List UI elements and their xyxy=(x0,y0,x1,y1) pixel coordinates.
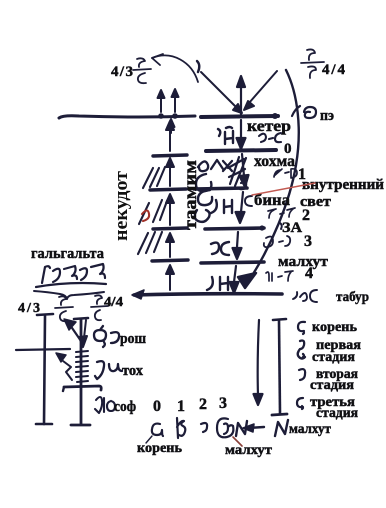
svg-text:пэ: пэ xyxy=(320,108,334,124)
svg-text:стадия: стадия xyxy=(310,378,354,393)
svg-text:внутренний: внутренний xyxy=(302,177,384,193)
N malhut bottom right xyxy=(275,420,288,436)
svg-text:4/4: 4/4 xyxy=(322,62,346,78)
svg-text:0: 0 xyxy=(153,398,161,415)
up arrow below left line xyxy=(168,119,175,133)
svg-text:малхут: малхут xyxy=(289,422,331,437)
toh glyphs + label xyxy=(95,361,122,379)
b-g handwriting under keter xyxy=(259,133,281,142)
zigzag arrow toward cross xyxy=(63,361,72,380)
g-d 2 handwriting xyxy=(268,208,295,218)
svg-text:табур: табур xyxy=(336,290,369,305)
squiggles crossing line above bina xyxy=(228,157,246,189)
N glyph with strike xyxy=(236,421,247,436)
slash marks group 3 xyxy=(138,232,162,254)
svg-text:тох: тох xyxy=(122,363,143,379)
right diagonal into keter xyxy=(244,71,277,110)
svg-text:малхут: малхут xyxy=(278,254,329,270)
red pointer line xyxy=(252,183,315,195)
curly brace xyxy=(34,291,104,299)
letter row: e glyph xyxy=(152,424,163,436)
svg-text:1: 1 xyxy=(177,398,185,415)
yud mark xyxy=(197,61,199,72)
curved arrow to upper-left xyxy=(152,55,198,82)
tabur glyphs xyxy=(293,290,317,302)
svg-text:1: 1 xyxy=(298,166,306,183)
d-l 3 handwriting xyxy=(264,236,290,247)
svg-text:3: 3 xyxy=(304,233,312,250)
svg-text:корень: корень xyxy=(137,441,183,456)
hohma bar xyxy=(206,150,276,151)
stage glyphs and labels xyxy=(298,322,305,334)
bottom bar of figure (sof line) xyxy=(64,386,101,390)
pe glyph xyxy=(292,106,316,118)
JN glyph bottom left of malhut bar xyxy=(207,277,228,290)
twin up arrows on left line xyxy=(158,90,165,112)
svg-text:таамим: таамим xyxy=(180,160,200,230)
top-right handwritten fraction + 4/4 xyxy=(301,49,324,78)
svg-text:4: 4 xyxy=(305,265,313,282)
svg-text:гальгальта: гальгальта xyxy=(31,246,104,262)
long down arrow right section xyxy=(254,320,263,405)
down arrow keter->hohma xyxy=(237,120,246,149)
down arrow beside it xyxy=(79,320,87,347)
down arrow malhut->bottom line xyxy=(230,266,239,293)
down arrow hohma->bina xyxy=(240,154,249,187)
cross horizontal line xyxy=(16,349,70,350)
yud-H glyph left of line xyxy=(218,127,233,144)
down arrow ZA->malhut xyxy=(233,232,242,259)
handwriting left of hohma bar xyxy=(198,160,232,171)
koren label with pointer xyxy=(146,436,152,443)
ZA bar xyxy=(205,228,264,229)
taamim tick bars xyxy=(153,155,187,156)
left diagonal into keter xyxy=(201,72,242,113)
taamim up arrows chain xyxy=(166,121,174,151)
epsilon glyph before bina xyxy=(245,196,252,206)
right vertical line of galgalta figure xyxy=(80,319,83,424)
svg-text:малхут: малхут xyxy=(225,443,272,458)
svg-text:стадия: стадия xyxy=(316,406,358,421)
down arrow bina->ZA xyxy=(236,192,245,223)
apostrophe before ZA xyxy=(280,223,282,229)
4/4 fraction xyxy=(91,295,108,320)
galgalta hebrew cursive xyxy=(42,264,105,283)
svg-text:корень: корень xyxy=(312,320,358,335)
I-beam line xyxy=(279,321,280,413)
svg-text:бина: бина xyxy=(254,192,290,209)
letter row: k glyph xyxy=(177,418,185,438)
coil on right line xyxy=(76,351,88,382)
svg-text:рош: рош xyxy=(120,331,146,347)
slash marks group 1 xyxy=(143,167,165,188)
up-left arrow at top of right line xyxy=(70,325,81,341)
svg-text:4/4: 4/4 xyxy=(104,295,123,310)
bina bar xyxy=(194,188,247,189)
tall cursive column left of bars xyxy=(195,174,212,222)
svg-text:4/3: 4/3 xyxy=(111,64,133,80)
1 and alef-bet handwriting xyxy=(274,169,297,178)
letter row: resh glyph xyxy=(201,423,207,432)
circled glyph xyxy=(217,418,233,437)
keter bar xyxy=(201,116,278,117)
svg-text:стадия: стадия xyxy=(312,350,355,365)
rosh glyphs + label xyxy=(94,326,119,347)
malhut bar xyxy=(201,262,264,263)
svg-text:ЗА: ЗА xyxy=(282,220,302,236)
underline sweep xyxy=(36,283,106,287)
big arc down the right side xyxy=(248,70,299,282)
sof glyphs + label xyxy=(95,397,115,413)
resh-kaf glyph left of ZA-malhut xyxy=(211,242,229,255)
left horizontal line xyxy=(59,116,195,118)
bottom long line with left arrowhead xyxy=(134,294,282,295)
up arrow above keter xyxy=(237,76,245,114)
svg-text:хохма: хохма xyxy=(254,153,295,170)
svg-text:3: 3 xyxy=(219,395,227,412)
malhut label with pointer xyxy=(233,437,242,446)
JN glyph left of bina-ZA xyxy=(211,200,232,213)
svg-text:кетер: кетер xyxy=(247,118,291,135)
strike arrow to left xyxy=(248,427,264,428)
slash marks group 2 with red pe xyxy=(139,200,167,224)
svg-text:соф: соф xyxy=(114,399,136,415)
handwritten fraction beside 4/3 xyxy=(133,58,151,83)
svg-text:2: 2 xyxy=(199,396,207,413)
svg-text:2: 2 xyxy=(302,207,310,224)
svg-text:некудот: некудот xyxy=(111,170,132,241)
left vertical line of galgalta figure xyxy=(44,316,45,424)
het-dalet 4 handwriting xyxy=(266,271,293,281)
